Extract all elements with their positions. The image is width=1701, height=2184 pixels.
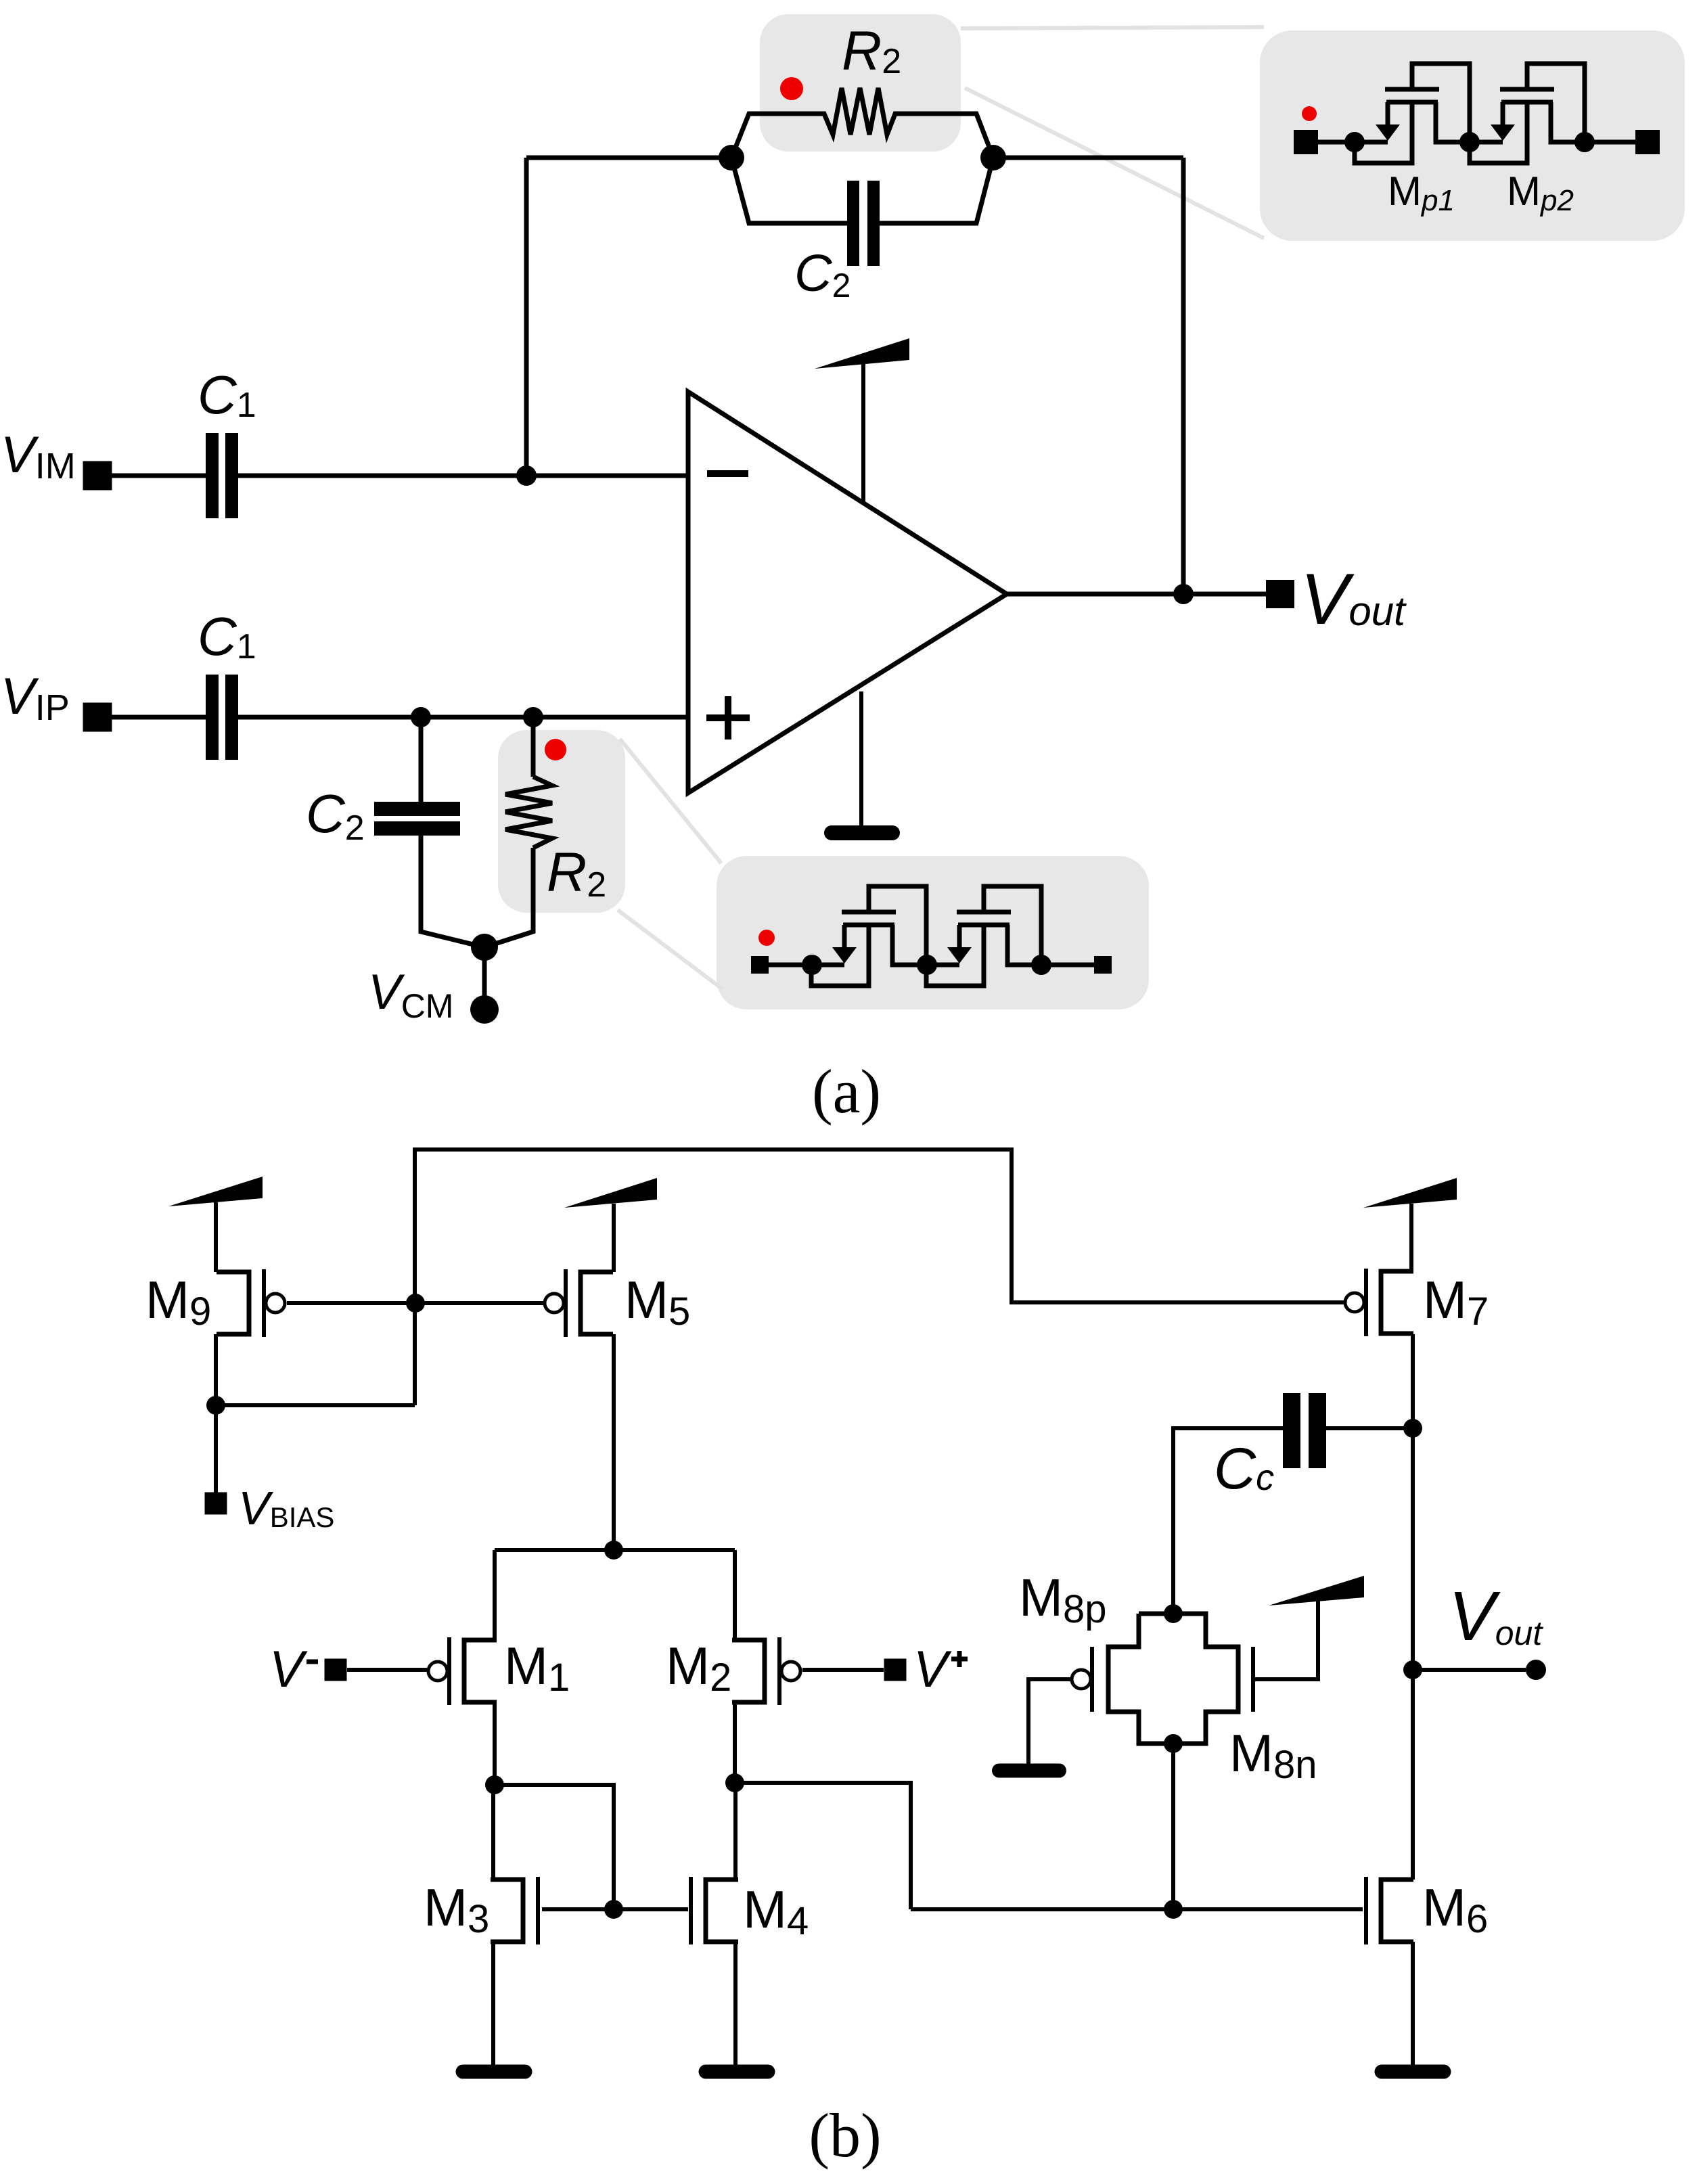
- transistor M9: [217, 1269, 285, 1337]
- terminal VIP: [83, 703, 112, 732]
- label Vout (a): [1300, 558, 1407, 639]
- pseudo-resistor transistor 2 (middle detail): [926, 886, 1041, 986]
- wire tail: [495, 1548, 735, 1552]
- op-amp ground: [824, 691, 900, 840]
- resistor R2 (input) wire lower: [484, 848, 533, 947]
- transistor M4: [691, 1877, 738, 1944]
- wire M9 drain to rail riser: [216, 1403, 415, 1407]
- wire M2 drain to output branch: [735, 1783, 911, 1909]
- red dot marker (top detail): [1302, 106, 1317, 121]
- wire gate bus M9-M5: [287, 1301, 544, 1305]
- wire M8 bottom to mirror bus: [1171, 1744, 1175, 1909]
- wire M8 top to Cc: [1173, 1428, 1283, 1614]
- wire VDD rail: [415, 1150, 1344, 1405]
- label Vout (b): [1449, 1577, 1543, 1655]
- transistor Mp2: [1470, 64, 1585, 163]
- wire M8n gate to flag: [1253, 1601, 1318, 1679]
- label M6: [1422, 1878, 1488, 1941]
- op-amp U1: [688, 392, 1007, 793]
- wire M3-M4 gates: [542, 1907, 688, 1911]
- callout wedge lines to middle detail box: [618, 739, 723, 989]
- wire op-amp output: [1007, 592, 1266, 597]
- capacitor C1 (lower): [206, 675, 238, 760]
- wire VIM input: [112, 474, 206, 478]
- label M3: [424, 1878, 489, 1941]
- node tail: [604, 1541, 623, 1560]
- transistor M2: [732, 1637, 800, 1705]
- red dot marker (input R2): [545, 739, 566, 760]
- wire M2 gate to V+: [802, 1668, 884, 1672]
- wire C1 to inverting input: [238, 474, 688, 478]
- capacitor Cc: [1283, 1393, 1326, 1468]
- ground M4: [699, 2065, 775, 2079]
- wire node B to Mp2: [1470, 140, 1503, 145]
- wire Vout (b): [1413, 1668, 1526, 1672]
- pseudo-resistor transistor 1 (middle detail): [811, 886, 926, 986]
- wire riser to feedback: [524, 158, 529, 476]
- node compensation: [1403, 1419, 1422, 1438]
- label V_CM: [368, 965, 453, 1025]
- label C2 (feedback): [794, 244, 850, 304]
- node gate bus: [406, 1294, 425, 1313]
- svg-text:(b): (b): [809, 2101, 881, 2170]
- capacitor C2 (input) plates: [374, 802, 460, 836]
- wire M2 source: [733, 1550, 737, 1640]
- label M5: [625, 1270, 690, 1334]
- resistor R2 (feedback): [731, 88, 993, 158]
- node M2 drain: [725, 1773, 744, 1792]
- cross-coupled pair M8p/M8n body: [1108, 1614, 1238, 1744]
- wire M9 drain: [214, 1334, 218, 1493]
- terminal right (top detail): [1635, 130, 1660, 154]
- capacitor C2 (feedback) plates: [847, 181, 880, 266]
- label Cc: [1214, 1436, 1274, 1501]
- node M8 top: [1164, 1604, 1183, 1623]
- wire VIP input: [112, 715, 206, 720]
- terminal right (middle detail): [1094, 956, 1112, 974]
- node C (middle detail): [1031, 955, 1051, 975]
- wire node B to cell 2: [927, 963, 959, 968]
- wire M8p gate to ground: [1028, 1679, 1072, 1765]
- node M8 bottom junction: [1164, 1900, 1183, 1919]
- wire M1 drain: [493, 1702, 497, 1785]
- transistor M7: [1345, 1269, 1413, 1336]
- terminal Vout (a): [1266, 580, 1294, 608]
- terminal VIM: [83, 461, 112, 491]
- wire M5 drain to tail: [612, 1334, 616, 1550]
- wire left (top detail): [1318, 140, 1355, 145]
- label M4: [743, 1880, 809, 1943]
- label Mp2: [1507, 168, 1574, 217]
- label M8n: [1229, 1723, 1317, 1787]
- node Vout (b): [1403, 1660, 1422, 1679]
- capacitor C2 (feedback) wires: [731, 158, 993, 223]
- label R2 (feedback): [842, 20, 901, 82]
- node at inverting input branch: [516, 465, 537, 486]
- node VIP to R2 branch: [523, 707, 543, 727]
- resistor R2 (input) wire upper: [531, 717, 536, 777]
- wire mirror bus: [911, 1907, 1363, 1911]
- transistor Mp1: [1355, 64, 1470, 163]
- ground M6: [1375, 2065, 1451, 2079]
- callout wedge lines to top detail box: [961, 27, 1264, 238]
- node M8 bottom: [1164, 1734, 1183, 1753]
- transistor M8n gate: [1251, 1647, 1255, 1712]
- node feedback left: [719, 145, 744, 170]
- wire right (middle detail): [1041, 963, 1094, 968]
- transistor M3: [491, 1877, 538, 1944]
- pseudo-resistor R2 highlight box (top): [760, 14, 961, 152]
- transistor M6: [1366, 1877, 1413, 1944]
- pseudo-resistor R2 highlight box (middle): [498, 730, 625, 913]
- svg-text:V: V: [269, 1641, 308, 1698]
- wire M1 source: [493, 1550, 497, 1640]
- wire feedback to output node: [993, 158, 1183, 594]
- wire node A to Mp1: [1355, 140, 1388, 145]
- label V_IP: [1, 668, 70, 728]
- node C (top detail): [1574, 132, 1595, 152]
- node A (middle detail): [802, 955, 822, 975]
- wire M4 source: [733, 1942, 738, 2065]
- label C2 (input): [306, 783, 365, 848]
- label M7: [1423, 1270, 1489, 1334]
- label V_BIAS: [238, 1482, 334, 1534]
- red dot marker (feedback R2): [780, 77, 803, 100]
- node mirror gates: [604, 1900, 623, 1919]
- wire M3 drain: [491, 1785, 495, 1880]
- wire M6 source: [1411, 1942, 1415, 2065]
- label Mp1: [1388, 168, 1455, 217]
- node M1 drain: [485, 1775, 504, 1794]
- node A (top detail): [1344, 132, 1365, 152]
- op-amp power supply flag: [815, 338, 909, 502]
- capacitor C2 (input) wire upper: [419, 717, 424, 802]
- terminal left (middle detail): [751, 956, 769, 974]
- label M2: [666, 1636, 731, 1700]
- node output: [1173, 584, 1194, 604]
- terminal V+: [884, 1659, 907, 1681]
- red dot marker (middle detail): [758, 930, 775, 946]
- label V-: [269, 1641, 318, 1698]
- label C1 (lower): [198, 606, 256, 666]
- op-amp non-inverting input sign: [706, 696, 750, 740]
- wire M2 drain: [733, 1702, 737, 1783]
- node B (top detail): [1459, 132, 1480, 152]
- label M9: [145, 1270, 211, 1334]
- node feedback right: [980, 145, 1006, 170]
- ground M8p: [992, 1764, 1066, 1778]
- transistor M5: [545, 1269, 613, 1337]
- pseudo-resistor detail box Mp1/Mp2 (top right): [1260, 30, 1685, 241]
- label M8p: [1019, 1568, 1107, 1631]
- wire VCM stub: [482, 947, 487, 997]
- label V+: [913, 1641, 968, 1698]
- power flag M5: [564, 1178, 657, 1272]
- label (a): [812, 1057, 881, 1126]
- wire M3 source: [491, 1942, 495, 2065]
- label M1: [504, 1636, 570, 1700]
- terminal V-: [325, 1659, 347, 1681]
- wire left (middle detail): [769, 963, 812, 968]
- wire Cc to M7 drain: [1326, 1426, 1413, 1430]
- label R2 (input): [547, 842, 606, 905]
- svg-text:V: V: [913, 1641, 952, 1698]
- wire M7 drain to M6 drain: [1411, 1334, 1415, 1880]
- terminal Vout (b): [1526, 1660, 1546, 1680]
- terminal left (top detail): [1294, 130, 1318, 154]
- capacitor C1 (upper): [206, 433, 238, 518]
- wire M4 drain: [733, 1783, 738, 1880]
- svg-text:(a): (a): [812, 1057, 881, 1126]
- label V_IM: [1, 426, 76, 486]
- wire feedback top left: [526, 156, 731, 160]
- transistor M8p gate: [1072, 1647, 1092, 1712]
- node M9 drain to bias: [206, 1396, 225, 1415]
- power flag M8n: [1269, 1576, 1364, 1606]
- resistor R2 (input): [505, 777, 552, 848]
- terminal VCM: [470, 995, 499, 1024]
- label (b): [809, 2101, 881, 2170]
- node VIP to C2 branch: [411, 707, 431, 727]
- op-amp inverting input sign: [707, 470, 748, 477]
- wire V- to M1 gate: [347, 1668, 427, 1672]
- wire M1 drain to mirror: [495, 1785, 614, 1909]
- node VCM junction: [471, 934, 498, 961]
- power flag M7: [1363, 1178, 1457, 1272]
- wire C1 to non-inverting input: [238, 715, 688, 720]
- wire node A to cell 1: [812, 963, 844, 968]
- transistor M1: [428, 1637, 497, 1705]
- wire right (top detail): [1585, 140, 1635, 145]
- node B (middle detail): [917, 955, 937, 975]
- capacitor C2 (input) wire lower: [421, 836, 484, 947]
- terminal VBIAS: [205, 1493, 227, 1515]
- ground M3: [456, 2065, 532, 2079]
- power flag M9: [168, 1177, 263, 1272]
- pseudo-resistor detail box (middle right): [717, 856, 1149, 1009]
- label C1 (upper): [198, 365, 256, 425]
